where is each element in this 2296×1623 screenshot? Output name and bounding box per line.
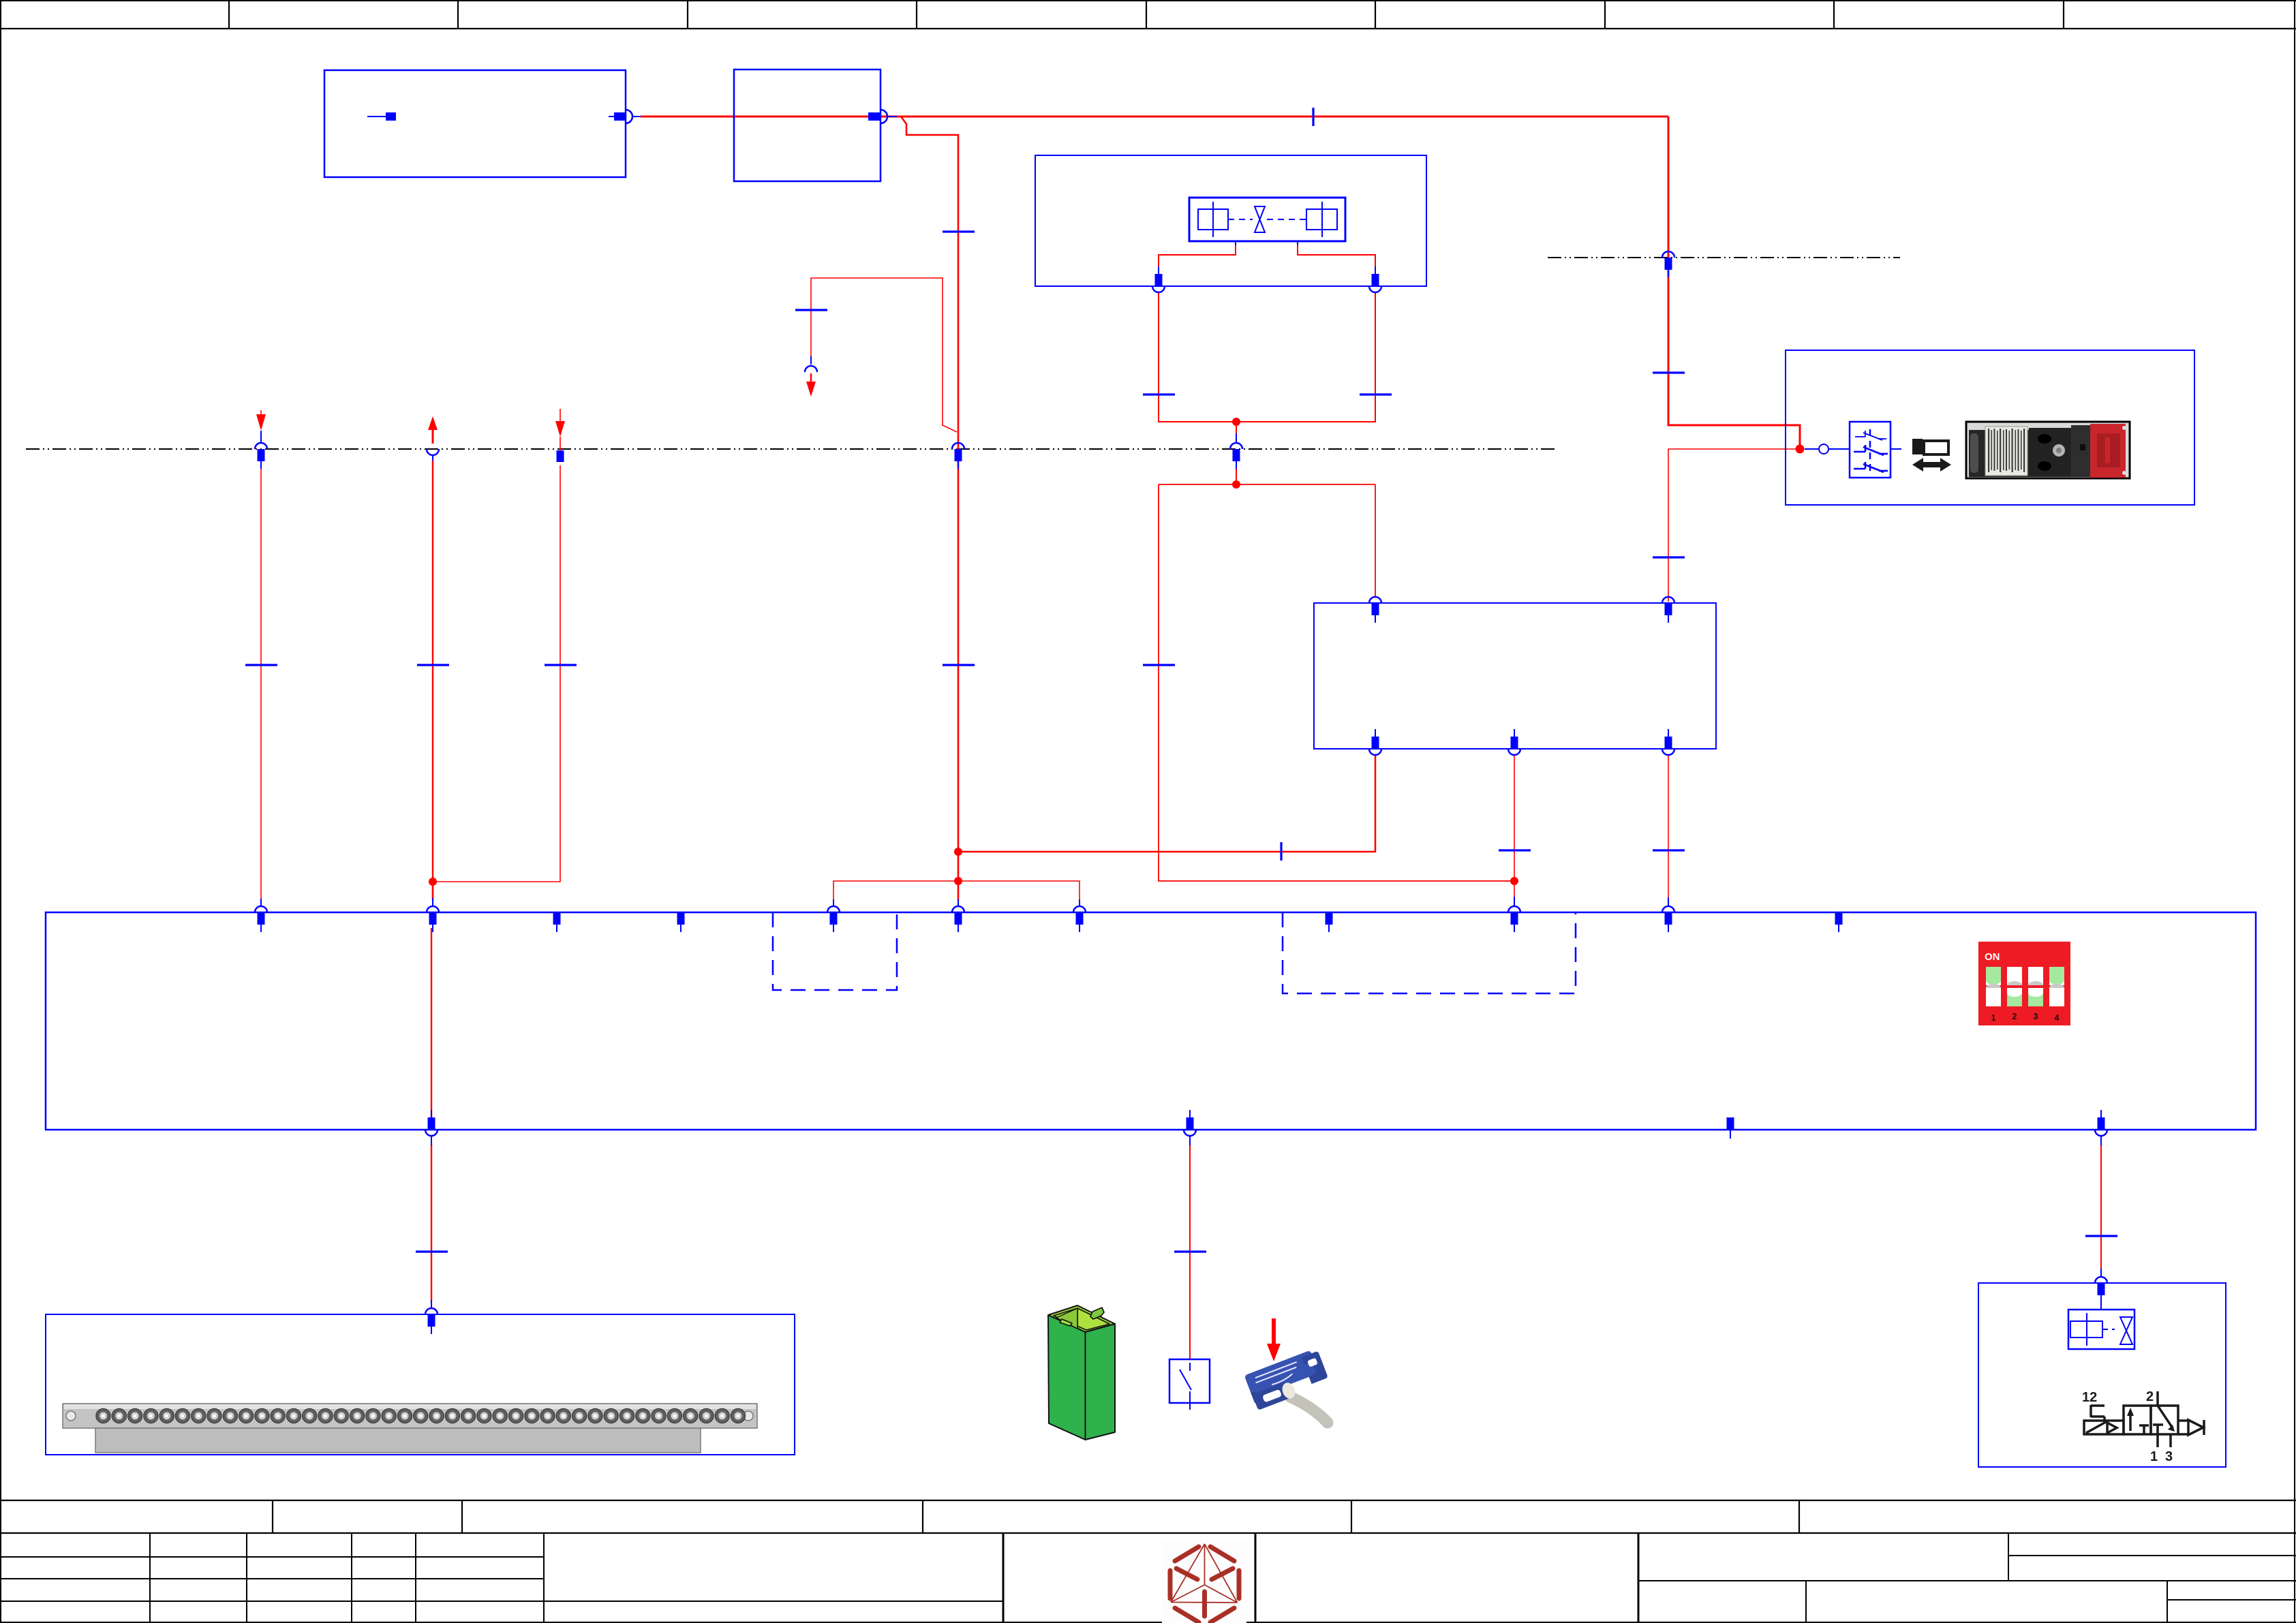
safety contact block symbol: [1805, 422, 1901, 478]
image DIN terminal rail: [63, 1404, 757, 1453]
box valve2: [1978, 1283, 2226, 1467]
wire exhaust hook: [811, 278, 957, 432]
wire supply right drop: [1668, 117, 1800, 448]
wire valve solenoid right: [1236, 245, 1375, 422]
net arrow up at 635: [428, 416, 438, 444]
wire middle riser below dot: [432, 882, 433, 899]
image photo sensor: [1244, 1318, 1330, 1423]
connector K1 bottom pin 2: [1508, 729, 1520, 755]
junction dots: [429, 418, 1805, 886]
blue connector stubs: [261, 433, 2101, 1309]
svg-text:3: 3: [2165, 1449, 2173, 1464]
box device A1 top-left: [324, 70, 626, 177]
photo safety door switch: [1966, 422, 2130, 478]
wire middle riser 635: [432, 461, 433, 899]
wire red loop rectangle: [1159, 484, 1514, 881]
box relay K1: [1314, 603, 1716, 749]
connector X10.4 on boundary line: [952, 443, 964, 469]
connector K1 bottom pin 1: [1369, 729, 1381, 755]
terminal X2.3 stub: [1727, 1117, 1734, 1139]
connector K1 top pin 1: [1369, 597, 1381, 623]
valve2 symbol: [2068, 1303, 2134, 1349]
terminal X1.9: [1508, 906, 1520, 932]
wire io link left pair: [833, 881, 1080, 901]
wire valve2 drop: [2100, 1145, 2102, 1303]
top column band: [0, 0, 2296, 29]
terminal X2.2: [1184, 1110, 1196, 1136]
svg-text:4: 4: [2055, 1013, 2060, 1023]
image DIP switch: [1978, 942, 2070, 1025]
connector X10.5 on boundary line: [1230, 443, 1242, 469]
wire valve common drop: [1236, 422, 1237, 484]
wire thin from junction J1 to safety loop: [1668, 449, 1800, 602]
company logo: [1162, 1540, 1246, 1623]
terminal X1.7: [1073, 906, 1086, 932]
phantom line right: [1548, 257, 1900, 258]
terminal X1.11 stub: [1835, 913, 1843, 932]
svg-text:1: 1: [1991, 1013, 1996, 1023]
exhaust hook arrow: [805, 356, 817, 397]
symbol 3/2 valve black: [2082, 1389, 2204, 1464]
svg-text:3: 3: [2034, 1012, 2038, 1021]
title block: [0, 1533, 2296, 1623]
terminal X1.3 stub: [553, 913, 561, 932]
terminal X1.4 stub: [677, 913, 685, 932]
DIN rail box top connector: [425, 1308, 438, 1334]
wire right riser 822: [433, 465, 560, 882]
wire main supply horizontal: [641, 116, 1668, 118]
wire left riser 383: [260, 465, 262, 900]
phantom line main: [26, 448, 1557, 450]
terminal X2.1: [425, 1110, 438, 1136]
wire relay output right: [1668, 755, 1669, 899]
box A2 right edge plug: [868, 110, 897, 123]
terminal X2.4: [2095, 1110, 2107, 1136]
svg-text:1: 1: [2150, 1449, 2158, 1464]
net arrow down at 383: [256, 410, 266, 443]
terminal X1.10: [1662, 906, 1674, 932]
wire 1406 to bus: [958, 881, 959, 899]
connector Y1 pin B: [1369, 266, 1381, 292]
wire breaks (blue dashes): [245, 108, 2117, 1252]
double arrow icon: [1912, 458, 1951, 472]
wire valve solenoid left: [1159, 245, 1236, 422]
wire relay box K1 output left: [958, 755, 1375, 852]
box DIN rail: [46, 1314, 795, 1455]
connector X10.3 on boundary line: [557, 450, 564, 462]
box A1 right edge plug: [609, 110, 641, 123]
dashed option box right: [1283, 912, 1576, 993]
terminal X1.5: [827, 906, 840, 932]
switch box B2: [1169, 1359, 1210, 1410]
wire middle riser to DIN rail: [431, 928, 432, 1301]
terminal X1.2: [427, 906, 439, 932]
terminal X1.1: [255, 906, 267, 932]
box safety switch S1: [1786, 350, 2194, 505]
box valve assembly: [1035, 155, 1426, 286]
connector X10.6 on boundary line right: [1662, 251, 1674, 277]
wire relay output mid: [1514, 755, 1515, 898]
box main terminal strip X1: [46, 912, 2256, 1130]
box A1 internal stub: [367, 112, 396, 121]
connector Y1 pin A: [1152, 266, 1165, 292]
connector X10.2 on boundary line: [427, 449, 439, 461]
svg-text:2: 2: [2012, 1012, 2017, 1021]
wire box2 branch jog: [897, 117, 958, 901]
connector K1 bottom pin 3: [1662, 729, 1674, 755]
connector X10.1 on boundary line: [255, 443, 267, 469]
connector K1 top pin 2: [1662, 597, 1674, 623]
actuator key icon: [1912, 439, 1948, 454]
net arrow down at 822: [555, 409, 565, 450]
terminal X1.6: [952, 906, 964, 932]
svg-text:2: 2: [2146, 1389, 2154, 1404]
image green bin box: [1048, 1305, 1115, 1440]
svg-text:ON: ON: [1985, 951, 2000, 963]
dashed option box left: [773, 912, 897, 990]
svg-text:12: 12: [2082, 1390, 2097, 1405]
box device A2: [734, 69, 881, 181]
valve Y1 symbol: [1189, 198, 1345, 245]
bottom column band: [0, 1500, 2296, 1533]
terminal X1.8 stub: [1326, 913, 1333, 932]
wire sensor drop: [1189, 1145, 1191, 1359]
valve2 box top connector: [2095, 1277, 2107, 1303]
